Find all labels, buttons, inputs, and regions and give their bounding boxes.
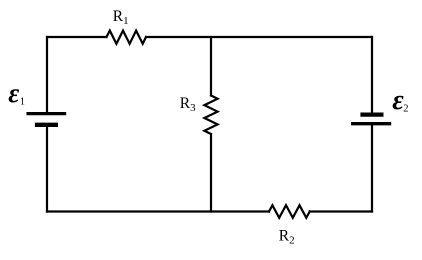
wire top-left segment <box>47 36 107 38</box>
resistor R1 <box>107 31 147 44</box>
battery E1 <box>27 114 67 125</box>
svg-text:R2: R2 <box>279 228 295 247</box>
svg-text:R3: R3 <box>180 95 196 114</box>
svg-text:2: 2 <box>403 104 408 115</box>
resistor R2 <box>269 205 310 218</box>
resistor R3 <box>204 96 217 135</box>
wire bottom-right segment <box>310 210 372 212</box>
wire top-middle-to-right segment <box>146 36 372 38</box>
battery E2 <box>351 115 391 124</box>
wire left lower segment <box>46 126 48 212</box>
svg-text:1: 1 <box>20 97 25 108</box>
wire middle lower segment <box>210 134 212 212</box>
wire left upper segment <box>46 37 48 112</box>
wire right lower segment <box>371 125 373 212</box>
svg-text:R1: R1 <box>113 8 129 27</box>
wire right upper segment <box>371 37 373 113</box>
svg-text:ε: ε <box>8 78 19 108</box>
wire middle upper segment <box>210 37 212 96</box>
wire bottom-left segment <box>47 210 269 212</box>
